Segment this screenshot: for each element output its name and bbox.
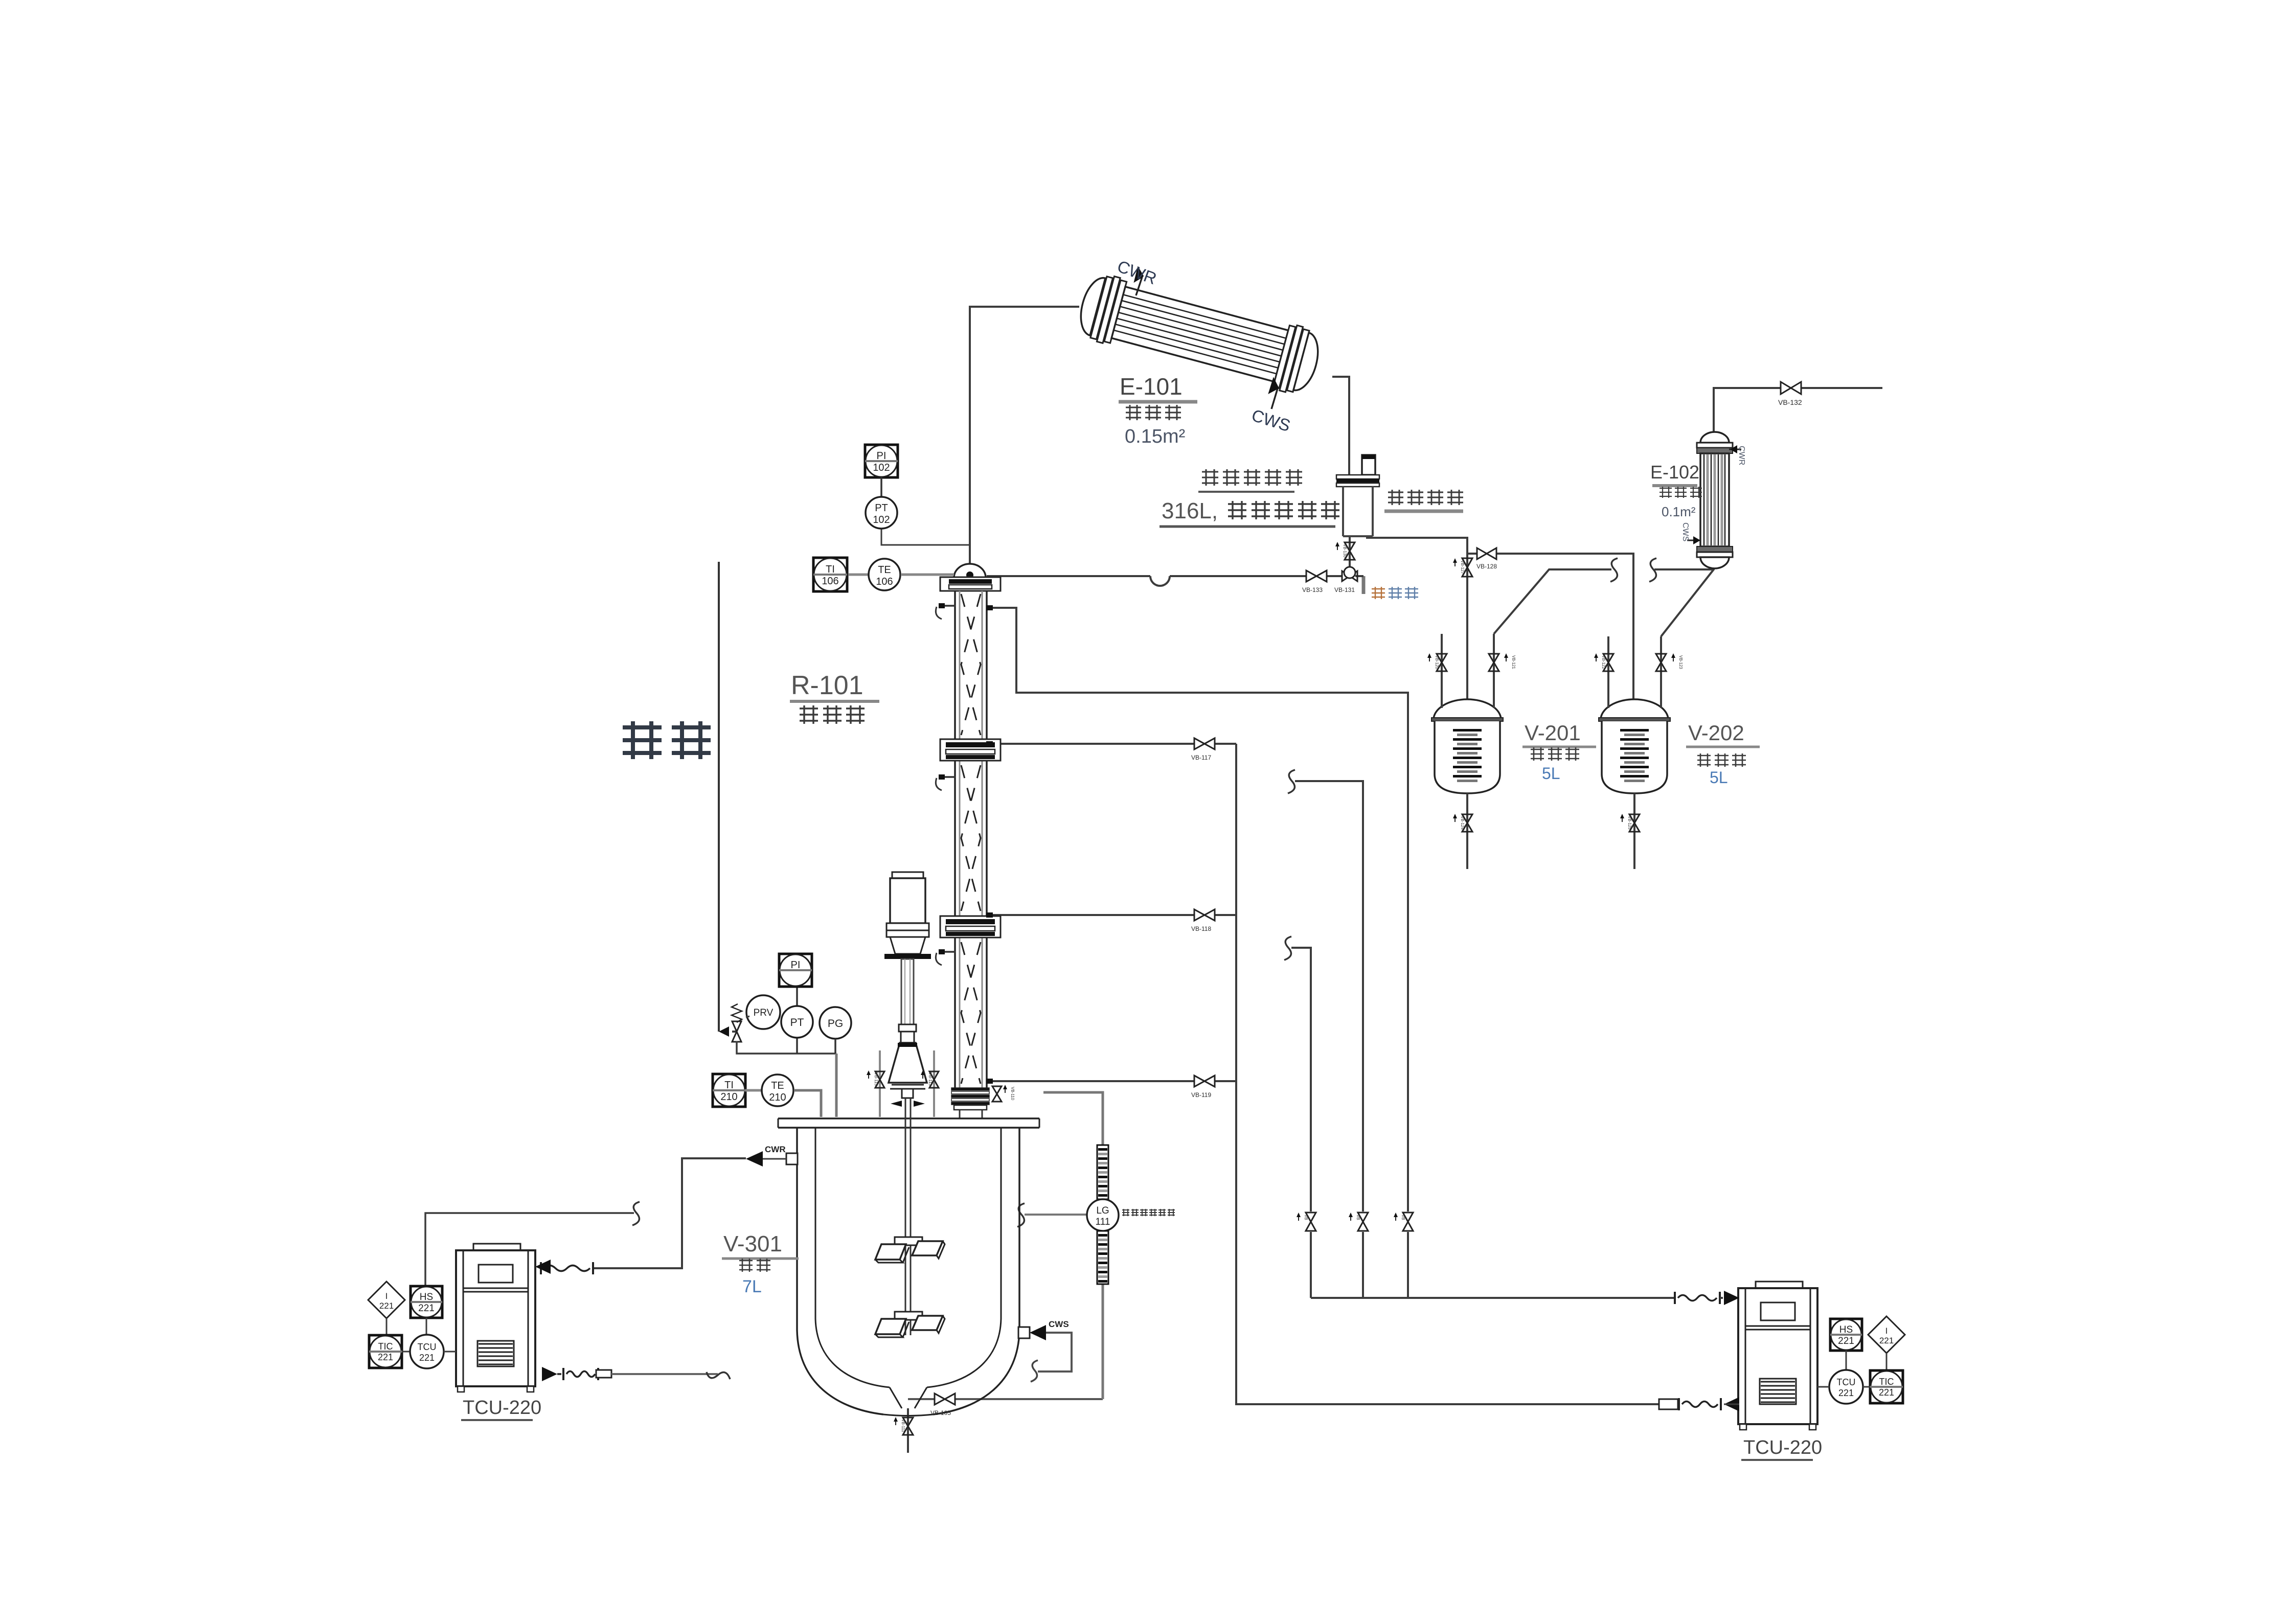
condenser E-101 (inclined shell & tube) bbox=[1074, 270, 1325, 398]
column top flange bbox=[940, 577, 1001, 591]
svg-text:TCU: TCU bbox=[1837, 1377, 1856, 1387]
wire: reactor drain down bbox=[907, 1408, 909, 1453]
instrument PI (square) bbox=[796, 987, 798, 1007]
wire: left TCU lower outlet with break bbox=[542, 1367, 557, 1381]
svg-text:VB-123: VB-123 bbox=[1678, 655, 1683, 669]
svg-text:221: 221 bbox=[1838, 1336, 1854, 1346]
instrument TIC-221 (right) bbox=[1870, 1370, 1903, 1403]
svg-text:I: I bbox=[385, 1291, 388, 1301]
instrument TI-210 bbox=[713, 1074, 745, 1107]
wire: column flange2 line VB-118 bbox=[987, 914, 1194, 916]
wire: LG-111 left signal with break bbox=[1025, 1214, 1087, 1216]
svg-text:VB-127: VB-127 bbox=[1460, 560, 1465, 574]
svg-text:VB-115: VB-115 bbox=[874, 1072, 878, 1086]
TCU-220 right cabinet bbox=[1756, 1282, 1803, 1288]
right nozzle ticks bbox=[986, 605, 993, 610]
svg-text:VB: VB bbox=[1304, 1215, 1308, 1220]
svg-text:PT: PT bbox=[875, 502, 888, 514]
svg-text:VB-105: VB-105 bbox=[930, 1409, 951, 1416]
instrument I-221 diamond (left) bbox=[368, 1282, 405, 1318]
valve VB-119 bbox=[1194, 1076, 1215, 1087]
instrument TE-106 bbox=[849, 574, 868, 576]
svg-text:TI: TI bbox=[724, 1080, 734, 1091]
svg-text:VB-113: VB-113 bbox=[928, 1072, 933, 1086]
instrument TE-210 bbox=[745, 1089, 762, 1092]
node: sample port stub 取样口 bbox=[1362, 576, 1366, 594]
TCU-220 left cabinet bbox=[473, 1244, 520, 1250]
svg-text:VB-130: VB-130 bbox=[1343, 544, 1347, 558]
svg-text:VB-119: VB-119 bbox=[1191, 1091, 1211, 1099]
CWR nozzle on jacket bbox=[786, 1153, 798, 1164]
svg-text:R-101: R-101 bbox=[791, 671, 863, 700]
lid nozzle valves beside agitator bbox=[879, 1050, 881, 1117]
wire: column bottom line VB-119 bbox=[987, 1080, 1194, 1082]
wire: level gauge connection bbox=[1043, 1092, 1103, 1145]
drain valve VB-105 horizontal bbox=[935, 1393, 955, 1405]
svg-text:VB-122: VB-122 bbox=[1601, 655, 1606, 669]
wire: E-101 outlet down to reflux device bbox=[1332, 377, 1349, 475]
wire: column overhead line to sample valves bbox=[987, 575, 1150, 577]
right TCU port arrows bbox=[1724, 1291, 1739, 1305]
svg-text:PRV: PRV bbox=[754, 1008, 774, 1018]
svg-text:E-102: E-102 bbox=[1650, 462, 1699, 483]
wire: column top to E-101 inlet bbox=[970, 307, 1079, 564]
reflux device (自动回流器) body bbox=[1362, 455, 1375, 475]
wire: CWS loop at reactor bottom right bbox=[1038, 1333, 1072, 1371]
svg-text:0.15m²: 0.15m² bbox=[1125, 426, 1185, 447]
V-201 bottom outlet bbox=[1466, 793, 1468, 869]
svg-text:PG: PG bbox=[828, 1018, 843, 1030]
svg-text:TE: TE bbox=[771, 1080, 784, 1091]
impeller upper bbox=[895, 1237, 922, 1245]
label 磁翻板液位计 bbox=[1122, 1209, 1175, 1216]
packing section 3 bbox=[961, 942, 981, 1084]
label 取样口 bbox=[1372, 587, 1385, 599]
mid flange 1 bbox=[940, 739, 1001, 761]
valve VB-128 on V-202 branch bbox=[1477, 548, 1496, 559]
svg-text:VB-125: VB-125 bbox=[1627, 816, 1632, 830]
svg-text:LG: LG bbox=[1096, 1205, 1109, 1216]
wire: reactor CWR to left TCU supply bbox=[592, 1158, 746, 1268]
svg-text:V-201: V-201 bbox=[1525, 721, 1581, 745]
svg-text:106: 106 bbox=[876, 576, 893, 587]
wire: jacket riser x=2564 (break start) bbox=[1284, 936, 1291, 960]
receiver V-201 bbox=[1434, 699, 1501, 720]
label 排空 bbox=[623, 721, 711, 759]
svg-text:VB-132: VB-132 bbox=[1778, 398, 1802, 406]
instrument TCU-221 (left) bbox=[410, 1335, 444, 1368]
svg-text:TCU: TCU bbox=[418, 1342, 437, 1352]
CWS nozzle arrow on E-101 bbox=[1271, 388, 1278, 409]
svg-text:5L: 5L bbox=[1710, 768, 1728, 787]
svg-text:VB-121: VB-121 bbox=[1511, 655, 1516, 669]
reactor inner wall bbox=[815, 1128, 1001, 1387]
agitator shaft housing bbox=[901, 959, 914, 1024]
svg-text:VB: VB bbox=[1356, 1215, 1360, 1220]
svg-text:CWS: CWS bbox=[1681, 522, 1690, 541]
svg-text:PI: PI bbox=[877, 450, 886, 462]
svg-text:VB-118: VB-118 bbox=[1191, 925, 1211, 932]
svg-text:TCU-220: TCU-220 bbox=[463, 1397, 541, 1419]
wire: PT-102 signal to riser bbox=[881, 529, 969, 545]
condenser E-102 bbox=[1697, 432, 1733, 568]
label 电磁线圈 bbox=[1388, 490, 1463, 505]
riser x=2418 down to TCU return bus bbox=[1236, 744, 1659, 1404]
vent line 排空 bbox=[718, 562, 720, 1032]
svg-text:221: 221 bbox=[1879, 1336, 1894, 1345]
label 自动回流器 bbox=[1202, 469, 1302, 486]
wire TE-106 to column bbox=[901, 574, 954, 576]
svg-text:TIC: TIC bbox=[1879, 1377, 1894, 1387]
svg-text:210: 210 bbox=[720, 1091, 737, 1103]
reactor lid bbox=[778, 1118, 1039, 1128]
instrument PG bbox=[820, 1007, 851, 1039]
valve VB-118 bbox=[1194, 909, 1215, 921]
wire: column section1 jacket to mid-right riser x=2754 bbox=[987, 608, 1408, 1211]
svg-text:TE: TE bbox=[878, 564, 891, 576]
packing section 1 bbox=[961, 594, 981, 735]
svg-text:221: 221 bbox=[418, 1303, 435, 1314]
break hooks where header hops V-202 line bbox=[1610, 558, 1618, 582]
instrument TIC-221 (left) bbox=[369, 1335, 402, 1368]
left jacket stubs with break hooks bbox=[940, 605, 956, 607]
svg-text:CWR: CWR bbox=[765, 1145, 786, 1154]
bottom drain cone bbox=[890, 1387, 927, 1408]
wire: thermal return bus pieces to right TCU bbox=[1674, 1403, 1678, 1405]
wire TE-210 to lid bbox=[794, 1090, 821, 1117]
instrument PI-102 bbox=[865, 445, 898, 477]
E-102 CWR arrow bbox=[1729, 449, 1741, 450]
instrument I-221 diamond (right) bbox=[1868, 1316, 1905, 1353]
svg-text:V-202: V-202 bbox=[1688, 721, 1744, 745]
column bottom bellows bbox=[951, 1088, 989, 1090]
V-201 top nozzles bbox=[1441, 634, 1443, 708]
wire: reflux right outlet to V-201 bbox=[1367, 536, 1467, 702]
svg-text:TCU-220: TCU-220 bbox=[1743, 1437, 1822, 1458]
svg-text:0.1m²: 0.1m² bbox=[1662, 504, 1696, 519]
instrument HS-221 (right) bbox=[1830, 1319, 1862, 1351]
valve VB-132 on E-102 outlet bbox=[1781, 382, 1801, 394]
wire: thermal supply bus to right TCU bbox=[1311, 1297, 1674, 1299]
V-202 bottom outlet bbox=[1633, 793, 1635, 869]
svg-text:PI: PI bbox=[791, 959, 801, 971]
level gauge ladder lower bbox=[1097, 1231, 1108, 1284]
pipe hop on overhead line bbox=[1150, 576, 1170, 586]
svg-text:V-301: V-301 bbox=[723, 1231, 782, 1256]
svg-text:102: 102 bbox=[873, 462, 890, 473]
instrument HS-221 (left) bbox=[411, 1286, 442, 1318]
svg-text:TIC: TIC bbox=[378, 1341, 393, 1352]
PRV outlet header bbox=[737, 1041, 836, 1054]
column R-101 dome top bbox=[954, 564, 986, 578]
wire: V-202 diagonal to E-102 bottom bbox=[1661, 557, 1714, 636]
svg-text:VB-131: VB-131 bbox=[1334, 586, 1355, 593]
svg-text:221: 221 bbox=[378, 1352, 393, 1362]
svg-text:106: 106 bbox=[822, 576, 838, 587]
valve VB-133 on overhead line bbox=[1306, 570, 1327, 582]
svg-text:CWS: CWS bbox=[1049, 1319, 1069, 1329]
E-102 CWS arrow bbox=[1687, 540, 1699, 541]
valve VB-131 (sample) bbox=[1342, 571, 1357, 581]
instrument PT-102 bbox=[880, 477, 882, 497]
svg-text:111: 111 bbox=[1096, 1217, 1110, 1227]
V-202 top nozzles bbox=[1607, 636, 1609, 708]
reactor jacket outer wall bbox=[797, 1128, 1019, 1414]
svg-text:5L: 5L bbox=[1542, 764, 1560, 783]
svg-text:PT: PT bbox=[790, 1017, 804, 1028]
drain valve at reactor bottom bbox=[903, 1418, 913, 1435]
agitator shaft bbox=[905, 1098, 911, 1335]
wire: reactor bottom drain run to level gauge bbox=[908, 1398, 935, 1400]
svg-text:VB-117: VB-117 bbox=[1191, 754, 1211, 761]
valve VB-117 bbox=[1194, 738, 1215, 749]
wire: reflux left drain down to overhead line bbox=[1349, 536, 1351, 576]
svg-text:HS: HS bbox=[420, 1292, 433, 1302]
svg-text:221: 221 bbox=[1838, 1388, 1854, 1398]
svg-text:VB: VB bbox=[1401, 1215, 1405, 1220]
instrument LG-111 bbox=[1087, 1199, 1119, 1231]
mechanical seal cone bbox=[889, 1043, 927, 1083]
valves on thermal risers bbox=[1306, 1213, 1316, 1231]
svg-text:I: I bbox=[1885, 1326, 1888, 1336]
wire: E-102 top outlet with valve VB-132 bbox=[1714, 388, 1781, 432]
svg-text:VB-133: VB-133 bbox=[1302, 586, 1323, 593]
svg-text:VB-120: VB-120 bbox=[1435, 655, 1439, 669]
svg-text:316L,: 316L, bbox=[1162, 498, 1218, 523]
instrument PRV bbox=[746, 995, 780, 1029]
svg-text:210: 210 bbox=[769, 1092, 786, 1103]
coupling bbox=[899, 1024, 916, 1032]
svg-text:VB-128: VB-128 bbox=[1476, 563, 1497, 570]
CWR nozzle arrow on E-101 bbox=[1136, 277, 1142, 295]
wire: V-201 diagonal to E-102 bottom header bbox=[1494, 569, 1611, 634]
column tube walls bbox=[955, 591, 987, 1088]
svg-text:221: 221 bbox=[1879, 1387, 1894, 1398]
instrument TI-106 bbox=[813, 558, 847, 591]
svg-text:CWR: CWR bbox=[1737, 446, 1746, 465]
svg-text:7L: 7L bbox=[742, 1277, 762, 1296]
wire: HS-221 signal with break end bbox=[425, 1213, 634, 1287]
svg-text:E-101: E-101 bbox=[1120, 373, 1183, 400]
relief valve PRV with arrow to vent bbox=[719, 1026, 729, 1037]
instrument PT bbox=[796, 1037, 798, 1054]
CWS nozzle on jacket bbox=[1018, 1327, 1030, 1338]
wire: column flange1 line VB-117 to riser x=2418 bbox=[987, 743, 1194, 745]
agitator motor bbox=[892, 872, 923, 878]
receiver V-202 bbox=[1601, 699, 1668, 720]
mid flange 2 bbox=[940, 916, 1001, 938]
valve on riser to V-201 bbox=[1462, 558, 1472, 577]
packing section 2 bbox=[961, 765, 981, 911]
wire: jacket riser x=2666 (break start) bbox=[1288, 770, 1295, 793]
instrument TCU-221 (right) bbox=[1829, 1370, 1863, 1404]
valve VB-130 on reflux drain bbox=[1345, 542, 1355, 560]
wire: pressure header to reactor lid bbox=[835, 1054, 838, 1117]
svg-text:HS: HS bbox=[1839, 1324, 1853, 1335]
svg-text:VB-110: VB-110 bbox=[1010, 1087, 1015, 1101]
svg-text:221: 221 bbox=[419, 1353, 435, 1363]
svg-text:VB-124: VB-124 bbox=[1460, 816, 1465, 830]
svg-text:102: 102 bbox=[873, 514, 890, 525]
impeller lower bbox=[895, 1312, 922, 1320]
svg-text:221: 221 bbox=[379, 1301, 394, 1311]
level gauge ladder upper bbox=[1097, 1145, 1108, 1199]
wire: branch to V-202 with valve VB-128 bbox=[1467, 553, 1476, 555]
valve VB-110 near column bottom bbox=[992, 1086, 1002, 1102]
svg-text:VB-111: VB-111 bbox=[901, 1419, 905, 1432]
svg-text:TI: TI bbox=[826, 564, 835, 575]
